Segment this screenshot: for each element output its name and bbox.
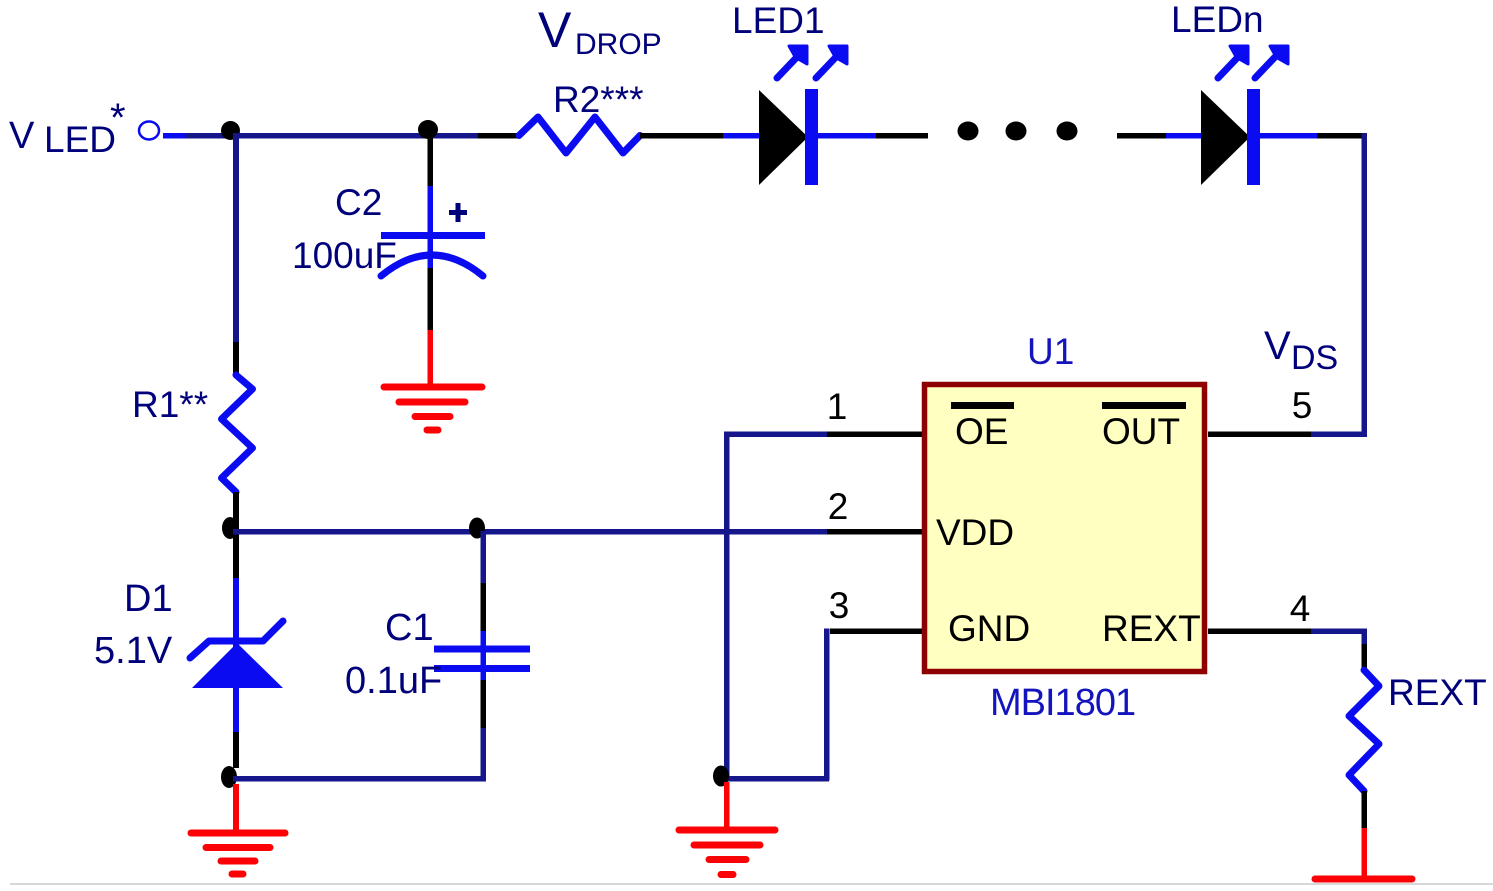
wire LED1 cathode blue	[818, 133, 876, 139]
wire D1 ground red	[233, 784, 239, 831]
svg-text:2: 2	[828, 486, 849, 527]
wire GND vertical navy	[824, 629, 830, 781]
wire REXT vertical black	[1362, 644, 1368, 670]
svg-text:R2***: R2***	[553, 79, 644, 120]
ground middle	[679, 830, 775, 875]
wire REXT vertical navy	[1362, 629, 1368, 645]
svg-text:OUT: OUT	[1102, 411, 1180, 452]
node VLED terminal label	[9, 96, 126, 160]
svg-text:DROP: DROP	[575, 28, 662, 61]
svg-text:U1: U1	[1027, 331, 1074, 372]
svg-text:REXT: REXT	[1388, 672, 1487, 713]
wire GND horizontal navy	[726, 776, 829, 782]
label VDS	[1264, 324, 1338, 377]
capacitor C2 wire blue	[428, 186, 434, 270]
capacitor C2 bottom curved plate	[381, 255, 483, 276]
wire C2 bottom black	[428, 268, 434, 332]
plus sign C2	[449, 203, 467, 222]
wire D1 top black	[233, 540, 239, 581]
terminal circle VLED	[139, 122, 159, 140]
junction node at C2 top	[418, 120, 438, 139]
wire D1 bottom black	[233, 732, 239, 768]
svg-text:C1: C1	[385, 607, 434, 649]
ground bottom right	[1315, 876, 1412, 883]
svg-text:OE: OE	[955, 411, 1008, 452]
wire R1 to VDD node black	[233, 492, 239, 582]
label VDROP	[538, 2, 662, 61]
wire OE horizontal navy	[724, 432, 828, 438]
wire OUT corner navy	[1311, 432, 1367, 438]
wire bottom right red	[1362, 828, 1368, 878]
wire right vertical navy to OUT	[1362, 133, 1368, 437]
svg-text:LED1: LED1	[732, 0, 825, 41]
wire LED1 out black	[876, 133, 928, 139]
junction node ground left	[221, 766, 237, 788]
resistor R2 zigzag	[519, 117, 640, 153]
junction node at VLED	[221, 121, 240, 140]
svg-text:*: *	[110, 96, 126, 140]
LED LED1	[759, 46, 847, 185]
junction node middle ground	[713, 766, 729, 787]
wire VLED stub blue	[163, 133, 188, 139]
svg-text:5.1V: 5.1V	[94, 630, 173, 672]
wire into LEDn black	[1117, 133, 1166, 139]
wire left vertical navy from VLED node	[233, 133, 239, 342]
capacitor C2 wire top black	[428, 133, 434, 188]
svg-text:0.1uF: 0.1uF	[345, 660, 442, 702]
wire OE vertical navy	[724, 432, 730, 780]
wire VDD rail navy	[233, 529, 829, 535]
wire LEDn anode blue	[1166, 133, 1203, 139]
resistor R1 zigzag	[222, 375, 253, 492]
wire LEDn out black	[1317, 133, 1367, 139]
svg-text:LEDn: LEDn	[1171, 0, 1264, 40]
wire REXT corner navy	[1311, 629, 1367, 635]
wire REXT pin stub black	[1208, 629, 1312, 635]
junction node VDD left	[222, 517, 238, 539]
svg-text:V: V	[9, 115, 35, 157]
svg-text:1: 1	[827, 386, 848, 427]
ground under C2	[384, 387, 482, 430]
wire OUT pin stub black	[1208, 432, 1312, 438]
svg-text:5: 5	[1292, 385, 1313, 426]
ground bottom left	[191, 833, 285, 874]
wire middle ground red	[724, 782, 730, 829]
svg-text:D1: D1	[124, 578, 173, 620]
wire top rail black to R2	[478, 133, 520, 139]
zener diode D1	[190, 578, 283, 732]
wire LED1 anode blue	[723, 133, 761, 139]
pin name OE with overbar	[951, 402, 1014, 452]
svg-text:VDD: VDD	[936, 512, 1014, 553]
svg-text:DS: DS	[1291, 339, 1338, 377]
LED LEDn	[1201, 46, 1288, 185]
svg-text:V: V	[1264, 324, 1291, 368]
resistor REXT zigzag	[1349, 670, 1379, 791]
wire C2 ground red	[428, 330, 434, 386]
IC U1 box	[925, 385, 1205, 672]
capacitor C2 top plate	[381, 232, 485, 239]
wire R2 to LED1 black	[640, 133, 725, 139]
junction node C1 top	[469, 518, 485, 539]
svg-text:REXT: REXT	[1102, 608, 1201, 649]
wire VDD pin stub black	[827, 529, 923, 535]
wire LEDn cathode blue	[1260, 133, 1317, 139]
wire below REXT black	[1362, 791, 1368, 830]
pin name OUT with overbar	[1102, 402, 1186, 452]
ellipsis dots	[958, 122, 1078, 141]
wire left vertical black above R1	[233, 342, 239, 376]
capacitor C1	[434, 531, 530, 781]
svg-text:100uF: 100uF	[292, 235, 397, 276]
wire GND pin stub black	[830, 629, 923, 635]
svg-text:C2: C2	[335, 182, 382, 223]
svg-text:MBI1801: MBI1801	[990, 682, 1135, 724]
wire OE pin stub black	[827, 432, 923, 438]
wire top rail navy VLED to C2 node	[186, 133, 481, 139]
svg-text:GND: GND	[948, 608, 1030, 649]
svg-text:V: V	[538, 2, 572, 58]
wire bottom loop navy	[233, 776, 486, 782]
svg-text:R1**: R1**	[132, 384, 208, 425]
svg-text:LED: LED	[44, 119, 116, 160]
svg-text:4: 4	[1290, 588, 1311, 629]
page bottom border line	[10, 883, 1493, 885]
svg-text:3: 3	[829, 585, 850, 626]
